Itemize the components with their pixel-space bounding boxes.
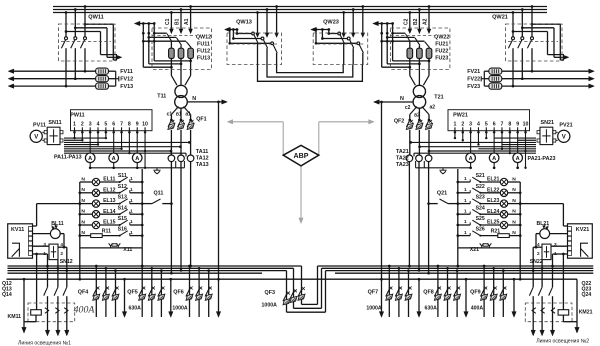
svg-text:PA11-PA13: PA11-PA13 — [54, 155, 82, 161]
svg-text:4: 4 — [477, 122, 480, 128]
svg-text:FU22: FU22 — [435, 49, 448, 55]
svg-text:Линия освещения №1: Линия освещения №1 — [18, 340, 71, 346]
svg-text:EL25: EL25 — [487, 220, 500, 226]
svg-text:TA21: TA21 — [396, 149, 409, 155]
svg-text:EL11: EL11 — [103, 177, 115, 183]
svg-text:9: 9 — [136, 122, 139, 128]
svg-text:S21: S21 — [476, 173, 485, 179]
svg-text:EL12: EL12 — [103, 187, 116, 193]
svg-text:S14: S14 — [118, 205, 127, 211]
svg-text:PV11: PV11 — [33, 122, 46, 128]
svg-text:3: 3 — [89, 122, 92, 128]
svg-text:S11: S11 — [118, 173, 127, 179]
svg-text:630A: 630A — [424, 306, 437, 312]
svg-text:C2: C2 — [403, 18, 409, 25]
svg-text:EL13: EL13 — [103, 198, 116, 204]
svg-text:PW21: PW21 — [453, 112, 468, 118]
svg-text:T21: T21 — [434, 94, 443, 100]
svg-text:1: 1 — [464, 187, 467, 192]
svg-text:Q11: Q11 — [153, 191, 163, 197]
svg-text:S23: S23 — [476, 195, 485, 201]
svg-text:6: 6 — [493, 122, 496, 128]
svg-text:2: 2 — [81, 122, 84, 128]
svg-text:QW13: QW13 — [236, 20, 252, 26]
svg-text:S26: S26 — [476, 227, 485, 233]
svg-text:S22: S22 — [476, 184, 485, 190]
svg-text:QF6: QF6 — [173, 289, 183, 295]
svg-text:7: 7 — [501, 122, 504, 128]
svg-text:EL23: EL23 — [487, 198, 500, 204]
svg-text:1: 1 — [464, 219, 467, 224]
svg-text:2: 2 — [60, 251, 63, 256]
svg-text:1000A: 1000A — [172, 306, 188, 312]
svg-text:1: 1 — [464, 176, 467, 181]
svg-text:QF8: QF8 — [423, 289, 433, 295]
svg-text:B2: B2 — [413, 18, 419, 25]
svg-text:B1: B1 — [175, 18, 181, 25]
svg-text:EL21: EL21 — [487, 177, 500, 183]
svg-text:S24: S24 — [476, 205, 485, 211]
svg-text:1: 1 — [453, 122, 456, 128]
svg-text:EL14: EL14 — [103, 209, 116, 215]
svg-text:N: N — [81, 209, 85, 215]
svg-text:SN22: SN22 — [530, 259, 543, 265]
svg-text:400A: 400A — [471, 306, 484, 312]
svg-text:a1: a1 — [185, 112, 191, 118]
svg-text:V: V — [34, 135, 38, 141]
svg-text:S15: S15 — [118, 216, 127, 222]
svg-text:A: A — [112, 156, 116, 162]
svg-text:1: 1 — [130, 230, 133, 235]
svg-text:5: 5 — [485, 122, 488, 128]
svg-text:4: 4 — [97, 122, 100, 128]
svg-text:FU23: FU23 — [435, 56, 448, 62]
svg-text:630A: 630A — [128, 306, 141, 312]
svg-text:QF1: QF1 — [196, 116, 206, 122]
svg-text:S16: S16 — [118, 227, 127, 233]
svg-text:N: N — [81, 187, 85, 193]
svg-text:X21: X21 — [470, 247, 479, 253]
svg-text:QW23: QW23 — [323, 20, 339, 26]
svg-text:R21: R21 — [491, 229, 501, 235]
svg-text:QF5: QF5 — [127, 289, 137, 295]
svg-text:3: 3 — [554, 242, 557, 247]
svg-text:2: 2 — [461, 122, 464, 128]
svg-text:S12: S12 — [118, 184, 127, 190]
svg-text:N: N — [81, 176, 85, 182]
svg-text:BL11: BL11 — [51, 221, 64, 227]
svg-text:1: 1 — [43, 251, 46, 256]
svg-text:A: A — [88, 156, 92, 162]
svg-text:EL15: EL15 — [103, 220, 116, 226]
svg-text:1: 1 — [130, 187, 133, 192]
svg-text:FU21: FU21 — [435, 42, 448, 48]
svg-text:АВР: АВР — [294, 152, 309, 160]
svg-text:QF9: QF9 — [470, 289, 480, 295]
svg-text:TA12: TA12 — [196, 156, 209, 162]
svg-text:6: 6 — [112, 122, 115, 128]
svg-text:Q24: Q24 — [582, 292, 592, 298]
svg-text:TA23: TA23 — [396, 162, 409, 168]
svg-text:BL21: BL21 — [536, 221, 549, 227]
svg-text:10: 10 — [523, 122, 529, 128]
svg-text:2: 2 — [537, 251, 540, 256]
svg-text:X11: X11 — [123, 247, 132, 253]
svg-text:c1: c1 — [167, 112, 173, 118]
svg-text:QW21: QW21 — [492, 15, 508, 21]
svg-text:1: 1 — [464, 208, 467, 213]
svg-text:PV21: PV21 — [559, 122, 572, 128]
svg-text:A1: A1 — [184, 18, 190, 25]
svg-text:A: A — [469, 156, 473, 162]
svg-text:FV22: FV22 — [467, 77, 480, 83]
svg-text:KM11: KM11 — [8, 314, 22, 320]
svg-text:c2: c2 — [405, 105, 411, 111]
svg-text:Линия освещения №2: Линия освещения №2 — [536, 339, 589, 345]
svg-text:PW11: PW11 — [70, 112, 84, 118]
svg-text:QF3: QF3 — [265, 290, 275, 296]
svg-text:QW12: QW12 — [196, 35, 211, 41]
svg-text:1000A: 1000A — [366, 306, 382, 312]
svg-text:QW22: QW22 — [434, 35, 449, 41]
svg-text:1: 1 — [554, 251, 557, 256]
svg-text:S25: S25 — [476, 216, 485, 222]
svg-text:3: 3 — [43, 242, 46, 247]
svg-text:FU13: FU13 — [197, 56, 210, 62]
svg-text:5: 5 — [104, 122, 107, 128]
svg-text:FV11: FV11 — [120, 69, 133, 75]
svg-text:a2: a2 — [430, 104, 436, 110]
svg-text:N: N — [512, 187, 516, 193]
svg-text:SN11: SN11 — [48, 120, 61, 126]
svg-text:4: 4 — [537, 242, 540, 247]
svg-text:7: 7 — [120, 122, 123, 128]
svg-text:FV13: FV13 — [120, 84, 133, 90]
svg-text:FU12: FU12 — [197, 49, 210, 55]
svg-text:TA13: TA13 — [196, 162, 209, 168]
svg-text:N: N — [512, 219, 516, 225]
svg-text:QW11: QW11 — [88, 15, 104, 21]
svg-text:1: 1 — [464, 230, 467, 235]
svg-text:3: 3 — [469, 122, 472, 128]
svg-text:KV11: KV11 — [11, 227, 24, 233]
svg-text:9: 9 — [516, 122, 519, 128]
svg-text:N: N — [192, 96, 196, 102]
svg-text:A: A — [516, 156, 520, 162]
svg-text:400A: 400A — [74, 305, 96, 316]
svg-text:FV21: FV21 — [467, 69, 480, 75]
svg-text:TA11: TA11 — [196, 149, 208, 155]
svg-text:FU11: FU11 — [197, 42, 210, 48]
svg-text:1000A: 1000A — [262, 303, 278, 309]
svg-text:1: 1 — [130, 208, 133, 213]
svg-text:Q21: Q21 — [437, 191, 447, 197]
svg-text:R11: R11 — [102, 229, 111, 235]
svg-text:T11: T11 — [157, 93, 166, 99]
svg-text:в2: в2 — [414, 113, 420, 119]
svg-text:TA22: TA22 — [396, 156, 409, 162]
svg-text:S13: S13 — [118, 195, 127, 201]
svg-text:N: N — [81, 198, 85, 204]
svg-text:V: V — [562, 135, 566, 141]
svg-text:10: 10 — [142, 122, 148, 128]
svg-text:N: N — [512, 176, 516, 182]
svg-text:FV23: FV23 — [467, 84, 480, 90]
svg-text:N: N — [400, 96, 404, 102]
svg-text:EL24: EL24 — [487, 209, 500, 215]
svg-text:SN21: SN21 — [541, 120, 555, 126]
svg-text:KM21: KM21 — [579, 310, 593, 316]
svg-text:N: N — [512, 209, 516, 215]
svg-text:N: N — [81, 219, 85, 225]
svg-text:Q14: Q14 — [2, 292, 12, 298]
svg-text:PA21-PA23: PA21-PA23 — [528, 156, 556, 162]
svg-text:1: 1 — [130, 198, 133, 203]
svg-text:A2: A2 — [423, 18, 429, 25]
svg-text:1: 1 — [73, 122, 76, 128]
svg-text:QF4: QF4 — [78, 289, 88, 295]
svg-text:N: N — [512, 230, 516, 236]
svg-text:KV21: KV21 — [576, 227, 590, 233]
svg-text:N: N — [512, 198, 516, 204]
svg-text:A: A — [492, 156, 496, 162]
svg-text:8: 8 — [128, 122, 131, 128]
svg-text:SN12: SN12 — [60, 259, 73, 265]
svg-text:C1: C1 — [165, 18, 171, 25]
svg-text:1: 1 — [464, 198, 467, 203]
svg-text:N: N — [81, 230, 85, 236]
svg-text:1: 1 — [130, 176, 133, 181]
svg-text:1: 1 — [130, 219, 133, 224]
svg-text:4: 4 — [60, 242, 63, 247]
svg-text:QF2: QF2 — [394, 119, 404, 125]
svg-text:QF7: QF7 — [368, 289, 378, 295]
svg-text:EL22: EL22 — [487, 187, 500, 193]
svg-text:в1: в1 — [176, 112, 182, 118]
svg-text:A: A — [135, 156, 139, 162]
svg-text:8: 8 — [508, 122, 511, 128]
svg-text:FV12: FV12 — [120, 77, 133, 83]
